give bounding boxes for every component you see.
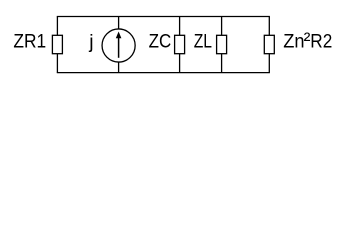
svg-text:Zn: Zn <box>283 31 304 53</box>
svg-text:R2: R2 <box>310 31 332 53</box>
svg-text:ZL: ZL <box>194 31 212 53</box>
svg-text:ZC: ZC <box>149 31 172 53</box>
svg-text:j: j <box>88 31 93 53</box>
svg-text:ZR1: ZR1 <box>13 31 46 53</box>
